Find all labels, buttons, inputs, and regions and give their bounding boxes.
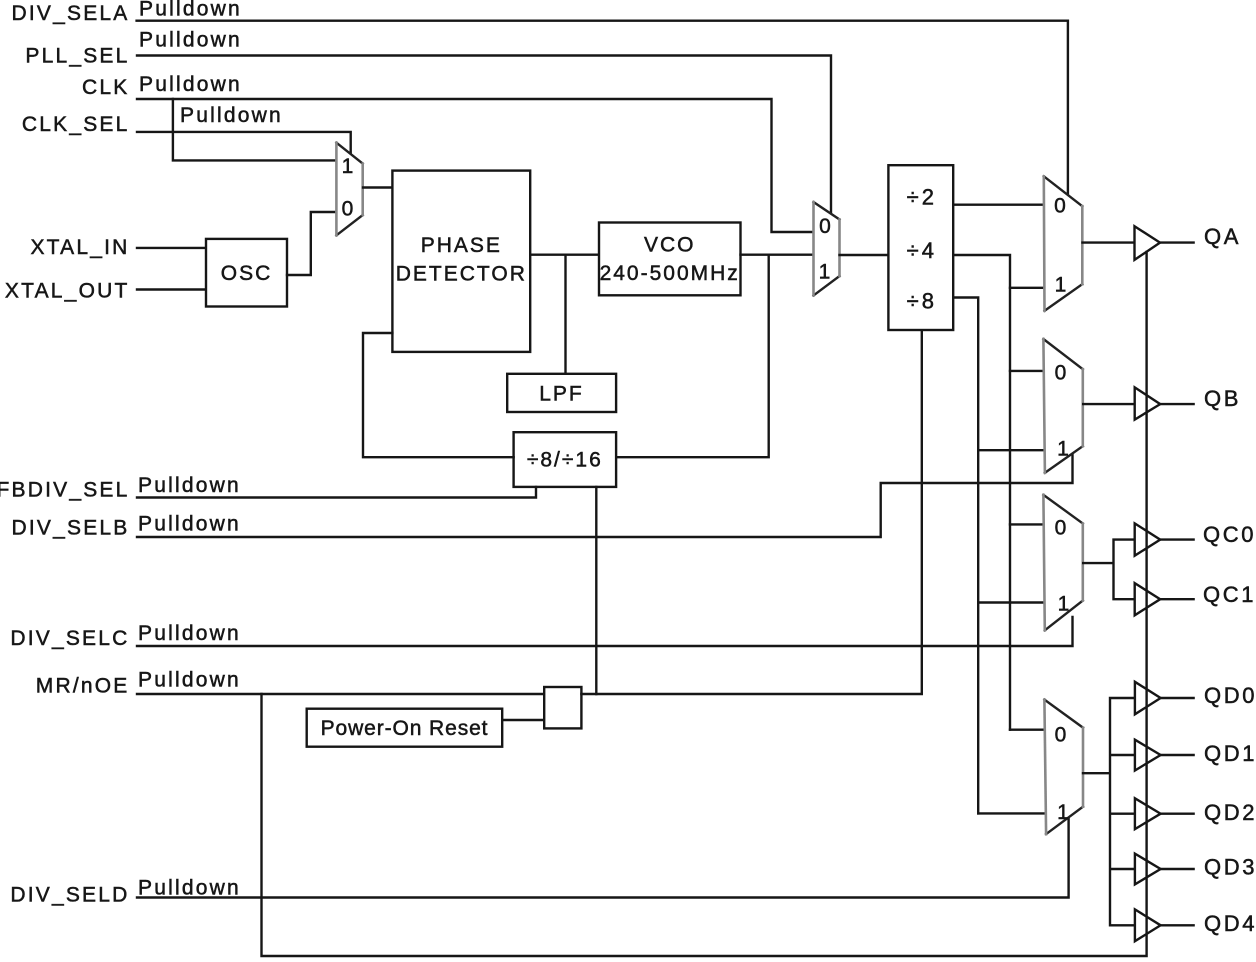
wire QA mux output to QA buffer — [1083, 241, 1135, 243]
svg-text:÷4: ÷4 — [907, 238, 937, 263]
svg-text:Pulldown: Pulldown — [138, 474, 241, 497]
wire MR/nOE to reset block — [137, 693, 544, 695]
wire QC0 buffer output — [1160, 538, 1193, 540]
wire DIV_SELC to QC mux select — [137, 617, 1073, 646]
wire DIV_SELD to QD mux select — [137, 818, 1069, 898]
wire DIV_SELA to QA mux select — [137, 21, 1068, 194]
svg-text:Pulldown: Pulldown — [138, 512, 241, 535]
buffer QA — [1135, 226, 1161, 260]
svg-text:÷8: ÷8 — [907, 289, 937, 314]
wire VCO output to bypass mux input 1 — [741, 253, 815, 255]
svg-text:DIV_SELC: DIV_SELC — [10, 627, 129, 650]
svg-text:QD4: QD4 — [1204, 911, 1256, 936]
svg-text:0: 0 — [819, 215, 831, 238]
svg-text:QD1: QD1 — [1204, 741, 1256, 766]
wire CLK branch to input mux input 1 — [173, 99, 337, 160]
svg-text:DIV_SELB: DIV_SELB — [12, 517, 130, 540]
wire divide-by-4 output rail — [953, 255, 1010, 730]
wire feedback divider output to phase detector — [363, 333, 514, 457]
svg-text:Pulldown: Pulldown — [139, 29, 242, 52]
VCO U2 box — [599, 223, 741, 296]
svg-text:1: 1 — [342, 155, 354, 178]
wire XTAL_OUT to OSC — [137, 288, 206, 290]
wire reset to feedback divider — [595, 487, 597, 694]
svg-text:QB: QB — [1204, 386, 1241, 411]
buffer QC0 — [1135, 523, 1161, 555]
svg-text:QD0: QD0 — [1204, 683, 1256, 708]
wire divide-by-2 output to QA mux input 0 — [953, 203, 1044, 205]
svg-text:LPF: LPF — [539, 383, 584, 406]
wire div4 rail to QD mux input 0 — [1010, 729, 1045, 731]
wire QC1 buffer output — [1160, 598, 1193, 600]
mux M6 QD — [1044, 700, 1083, 835]
wire QB mux output to QB buffer — [1083, 403, 1135, 405]
buffer QD0 — [1135, 682, 1161, 715]
svg-text:Pulldown: Pulldown — [138, 622, 241, 645]
phase detector U1 box — [392, 171, 530, 352]
wire QD4 buffer output — [1161, 924, 1194, 926]
wire input mux output to phase detector — [363, 186, 392, 188]
svg-text:Pulldown: Pulldown — [139, 0, 242, 21]
svg-text:Pulldown: Pulldown — [138, 668, 241, 691]
wire phase detector output to VCO — [530, 253, 599, 255]
svg-text:QC1: QC1 — [1203, 582, 1256, 607]
svg-text:÷2: ÷2 — [907, 185, 937, 210]
svg-text:1: 1 — [1055, 274, 1067, 297]
wire CLK to bypass mux input 0 — [137, 99, 814, 232]
svg-text:÷8/÷16: ÷8/÷16 — [527, 449, 603, 472]
svg-text:1: 1 — [1058, 593, 1070, 616]
svg-text:QC0: QC0 — [1203, 522, 1256, 547]
buffer QD3 — [1135, 854, 1161, 885]
wire FBDIV_SEL to feedback divider — [137, 487, 536, 498]
svg-text:CLK: CLK — [82, 76, 129, 99]
svg-text:DIV_SELD: DIV_SELD — [10, 884, 129, 907]
svg-text:0: 0 — [1055, 517, 1067, 540]
wire QD0 buffer output — [1161, 697, 1194, 699]
mux M4 QB — [1043, 339, 1082, 473]
wire div4 rail to QA mux input 1 — [1010, 287, 1044, 289]
wire div4 rail to QC mux input 0 — [1010, 523, 1044, 525]
mux M2 PLL-bypass — [814, 202, 840, 296]
wire power-on reset output to reset block — [502, 719, 544, 721]
mux M3 QA — [1044, 176, 1083, 310]
wire reset block output to output divider — [581, 330, 921, 694]
wire div4 rail to QB mux input 0 — [1010, 370, 1044, 372]
wire divide-by-8 output rail — [953, 298, 978, 814]
buffer QD2 — [1135, 798, 1161, 829]
svg-text:0: 0 — [342, 198, 354, 221]
wire QC mux output tee to buffers — [1083, 540, 1135, 600]
svg-text:Pulldown: Pulldown — [139, 73, 242, 96]
feedback divider /8 /16 box — [514, 432, 617, 487]
wire VCO output feedback down to divide-by-8/16 — [616, 255, 769, 458]
wire OSC output to input mux input 0 — [287, 212, 337, 275]
mux M1 input-select (XTAL/CLK) — [336, 143, 362, 236]
wire div8 rail to QD mux input 1 — [978, 812, 1044, 814]
power-on reset U3 box — [307, 709, 503, 747]
svg-text:DIV_SELA: DIV_SELA — [12, 2, 130, 25]
wire PLL_SEL to bypass mux select — [137, 56, 831, 215]
wire junction down to LPF — [564, 255, 566, 374]
svg-text:240-500MHz: 240-500MHz — [600, 262, 740, 285]
svg-text:XTAL_IN: XTAL_IN — [30, 236, 129, 259]
buffer QD1 — [1135, 740, 1161, 771]
wire QD1 buffer output — [1161, 754, 1194, 756]
svg-text:OSC: OSC — [221, 262, 273, 285]
svg-text:XTAL_OUT: XTAL_OUT — [5, 280, 130, 303]
svg-text:MR/nOE: MR/nOE — [36, 675, 130, 698]
wire MR/nOE branch to output buffers enable — [262, 252, 1147, 956]
oscillator OSC box — [206, 239, 287, 307]
output divider /2 /4 /8 box — [888, 165, 953, 330]
wire QA buffer output — [1160, 241, 1194, 243]
wire QD2 buffer output — [1161, 813, 1194, 815]
svg-text:PLL_SEL: PLL_SEL — [25, 45, 129, 68]
wire QD mux output rail to buffers — [1083, 698, 1135, 925]
wire div8 rail to QC mux input 1 — [978, 601, 1043, 603]
mux M5 QC — [1043, 495, 1082, 631]
buffer QC1 — [1135, 583, 1161, 615]
wire QB buffer output — [1160, 403, 1193, 405]
wire XTAL_IN to OSC — [137, 247, 206, 249]
svg-text:0: 0 — [1055, 362, 1067, 385]
svg-text:1: 1 — [819, 261, 831, 284]
svg-text:FBDIV_SEL: FBDIV_SEL — [0, 479, 130, 502]
svg-text:QA: QA — [1204, 224, 1241, 249]
svg-text:CLK_SEL: CLK_SEL — [22, 113, 130, 136]
svg-text:0: 0 — [1055, 724, 1067, 747]
svg-text:1: 1 — [1057, 438, 1069, 461]
svg-text:0: 0 — [1054, 195, 1066, 218]
wire CLK_SEL to input mux select — [137, 132, 351, 154]
wire DIV_SELB to QB mux select — [137, 455, 1073, 537]
svg-text:QD3: QD3 — [1204, 855, 1256, 880]
low pass filter LPF box — [507, 374, 616, 412]
wire bypass mux output to output divider — [840, 254, 889, 256]
svg-text:Pulldown: Pulldown — [180, 104, 283, 127]
svg-text:Power-On Reset: Power-On Reset — [321, 717, 489, 740]
buffer QD4 — [1135, 909, 1161, 941]
svg-text:QD2: QD2 — [1204, 800, 1256, 825]
svg-text:1: 1 — [1057, 801, 1069, 824]
svg-text:Pulldown: Pulldown — [138, 876, 241, 899]
svg-text:DETECTOR: DETECTOR — [396, 263, 527, 286]
wire div8 rail to QB mux input 1 — [978, 449, 1043, 451]
buffer QB — [1135, 387, 1161, 419]
svg-text:VCO: VCO — [644, 234, 696, 257]
wire QD3 buffer output — [1161, 868, 1194, 870]
svg-text:PHASE: PHASE — [421, 234, 502, 257]
reset combiner block — [544, 687, 581, 728]
